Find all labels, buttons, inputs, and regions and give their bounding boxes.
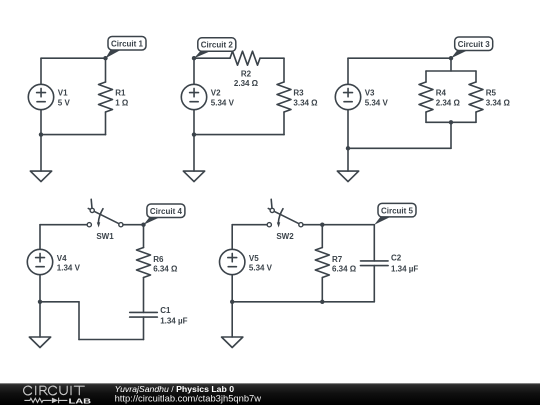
wire switch to node circuit 5 (303, 224, 322, 226)
flag tail Circuit 1 (106, 50, 122, 59)
svg-text:Circuit 4: Circuit 4 (150, 207, 183, 216)
wire bottom rail circuit 4 (79, 339, 144, 341)
node junction top circuit 5 (320, 223, 324, 227)
svg-text:V2: V2 (211, 89, 221, 98)
switch SW1 (87, 199, 123, 227)
node junction bottom left circuit 1 (39, 132, 43, 136)
wire R7 top lead (321, 225, 323, 248)
svg-text:1.34 V: 1.34 V (57, 264, 81, 273)
flag Circuit 2 (198, 38, 236, 52)
resistor R2 (230, 51, 260, 65)
resistor R1 (99, 82, 113, 112)
wire V2 bottom lead (193, 110, 195, 135)
svg-text:Circuit 5: Circuit 5 (381, 206, 414, 215)
voltage source V3 (335, 84, 360, 109)
svg-text:6.34 Ω: 6.34 Ω (153, 265, 178, 274)
node junction bottom left circuit 4 (38, 300, 42, 304)
resistor R7 (315, 248, 329, 278)
node junction top right circuit 1 (103, 56, 107, 60)
svg-text:Circuit 3: Circuit 3 (458, 40, 491, 49)
wire ground stem circuit 5 (231, 302, 233, 337)
wire bottom rail circuit 2 (194, 134, 284, 136)
resistor R6 (137, 248, 151, 278)
svg-text:R7: R7 (332, 255, 343, 264)
wire V3 top lead (347, 58, 349, 84)
wire ground stem circuit 2 (193, 135, 195, 172)
wire ground stem circuit 1 (40, 135, 42, 172)
svg-text:2.34 Ω: 2.34 Ω (436, 98, 461, 107)
wire top rail circuit 4 (40, 224, 87, 226)
svg-text:R4: R4 (436, 89, 447, 98)
svg-text:SW1: SW1 (96, 232, 114, 241)
flag Circuit 5 (378, 203, 416, 217)
resistor R4 (419, 82, 433, 112)
voltage source V5 (220, 249, 245, 274)
voltage source V4 (27, 249, 52, 274)
svg-text:1 Ω: 1 Ω (115, 98, 129, 107)
svg-text:R2: R2 (241, 69, 252, 78)
svg-text:3.34 Ω: 3.34 Ω (293, 98, 318, 107)
footer background bar (0, 383, 540, 405)
ground circuit 3 (337, 171, 358, 182)
capacitor C2 (361, 261, 389, 266)
wire R5 bottom lead (475, 112, 477, 122)
svg-text:LAB: LAB (69, 396, 92, 405)
wire V2 top lead (193, 58, 195, 84)
wire bottom drop circuit 3 (450, 122, 452, 148)
wire R1 top lead (105, 58, 107, 82)
wire R4 top lead (425, 71, 427, 82)
wire R7 bottom lead (321, 278, 323, 302)
wire top rail circuit 5 (232, 224, 267, 226)
node junction bottom left circuit 3 (346, 146, 350, 150)
capacitor C1 (130, 312, 158, 317)
svg-text:C2: C2 (391, 254, 402, 263)
wire V4 bottom lead (39, 275, 41, 302)
wire bottom left wire circuit 4 (40, 301, 79, 303)
node junction top circuit 4 (141, 223, 145, 227)
wire R4 bottom lead (425, 112, 427, 122)
wire ground stem circuit 3 (347, 148, 349, 171)
svg-text:1.34 µF: 1.34 µF (391, 264, 418, 273)
svg-text:R3: R3 (293, 89, 304, 98)
wire R6 top lead (143, 225, 145, 248)
voltage source V2 (181, 84, 206, 109)
node junction top left circuit 2 (192, 56, 196, 60)
logo resistor squiggle (24, 398, 51, 402)
node junction bottom left circuit 5 (230, 300, 234, 304)
wire switch to node circuit 4 (123, 224, 144, 226)
wire bottom rail circuit 3 (348, 147, 451, 149)
svg-text:R5: R5 (486, 89, 497, 98)
wire parallel bottom bar circuit 3 (426, 121, 476, 123)
flag Circuit 1 (108, 37, 146, 51)
svg-text:V4: V4 (57, 254, 67, 263)
svg-text:2.34 Ω: 2.34 Ω (234, 79, 259, 88)
logo CIRCUIT letter R (40, 386, 47, 395)
wire bottom rail circuit 5 (232, 301, 374, 303)
logo CIRCUIT letter T (74, 386, 84, 395)
svg-text:5.34 V: 5.34 V (249, 264, 273, 273)
ground circuit 4 (29, 337, 50, 348)
svg-text:SW2: SW2 (276, 232, 294, 241)
wire top rail left circuit 2 (194, 57, 230, 59)
ground circuit 1 (30, 171, 51, 182)
flag Circuit 4 (147, 204, 185, 218)
ground circuit 2 (183, 171, 204, 182)
switch SW2 (267, 199, 303, 227)
svg-text:R6: R6 (153, 255, 164, 264)
flag tail Circuit 4 (144, 217, 160, 225)
svg-text:Circuit 1: Circuit 1 (111, 39, 144, 48)
wire R3 bottom lead (283, 112, 285, 135)
svg-text:C1: C1 (160, 306, 171, 315)
wire node to C2 corner circuit 5 (322, 224, 374, 226)
wire V5 bottom lead (231, 275, 233, 302)
wire V3 bottom lead (347, 110, 349, 149)
wire bottom rail circuit 1 (41, 134, 106, 136)
logo CIRCUIT letter U (60, 386, 67, 394)
wire parallel top bar circuit 3 (426, 70, 476, 72)
wire top rail circuit 1 (41, 57, 106, 59)
flag tail Circuit 3 (451, 50, 468, 58)
svg-text:R1: R1 (115, 89, 126, 98)
wire bottom riser circuit 4 (78, 302, 80, 340)
wire C2 top lead (373, 225, 375, 261)
svg-text:6.34 Ω: 6.34 Ω (332, 265, 357, 274)
logo CIRCUIT letter C (24, 386, 32, 395)
logo CIRCUIT letter I (35, 386, 37, 395)
svg-text:5.34 V: 5.34 V (365, 98, 389, 107)
resistor R3 (277, 82, 291, 112)
svg-text:3.34 Ω: 3.34 Ω (486, 98, 511, 107)
svg-text:Circuit 2: Circuit 2 (201, 41, 234, 50)
logo CIRCUIT letter C2 (48, 386, 56, 395)
wire C1 bottom lead (143, 317, 145, 339)
wire C2 bottom lead (373, 266, 375, 302)
logo CIRCUIT letter I2 (70, 386, 72, 395)
svg-text:V5: V5 (249, 254, 259, 263)
node junction top circuit 3 (449, 56, 453, 60)
node junction bottom left circuit 2 (192, 132, 196, 136)
wire top rail right circuit 2 (260, 57, 284, 59)
ground circuit 5 (222, 337, 243, 348)
voltage source V1 (28, 84, 53, 109)
wire node drop circuit 3 (450, 58, 452, 71)
node junction parallel bottom circuit 3 (449, 120, 453, 124)
wire R3 top lead (283, 58, 285, 82)
svg-text:5 V: 5 V (58, 98, 71, 107)
flag Circuit 3 (455, 37, 493, 51)
svg-text:http://circuitlab.com/ctab3jh5: http://circuitlab.com/ctab3jh5qnb7w (115, 392, 262, 403)
wire R5 top lead (475, 71, 477, 82)
flag tail Circuit 5 (374, 217, 391, 225)
node junction bottom R7 circuit 5 (320, 300, 324, 304)
svg-text:1.34 µF: 1.34 µF (160, 316, 187, 325)
svg-text:5.34 V: 5.34 V (211, 98, 235, 107)
wire V1 top lead (40, 58, 42, 84)
wire V5 top lead (231, 225, 233, 250)
flag tail Circuit 2 (194, 51, 211, 58)
wire V4 top lead (39, 225, 41, 250)
wire V1 bottom lead (40, 110, 42, 135)
wire R1 bottom lead (105, 112, 107, 135)
svg-text:V1: V1 (58, 89, 68, 98)
wire top rail circuit 3 (348, 57, 451, 59)
svg-text:V3: V3 (365, 89, 375, 98)
logo diode (52, 398, 68, 404)
wire ground stem circuit 4 (39, 302, 41, 337)
resistor R5 (469, 82, 483, 112)
wire R6 to C1 wire (143, 278, 145, 313)
